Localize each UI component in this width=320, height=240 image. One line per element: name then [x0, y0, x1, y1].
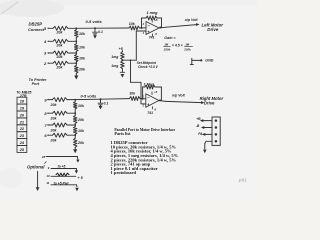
- label To Printer Port: [29, 78, 47, 86]
- svg-text:21: 21: [19, 119, 24, 124]
- svg-text:10k: 10k: [78, 104, 85, 108]
- svg-text:11: 11: [46, 181, 49, 185]
- svg-text:23: 23: [19, 133, 25, 138]
- node pin 8 label: [44, 111, 48, 116]
- node pin 3 label: [44, 51, 49, 56]
- node pin 4 label: [43, 39, 49, 44]
- arrow optional down: [36, 171, 40, 191]
- node pin 2 label: [43, 61, 49, 66]
- label 0-5 volts (mid): [81, 94, 98, 99]
- node pin 9 label: [44, 97, 48, 102]
- node pin 6 label: [44, 133, 48, 138]
- wire pin 6 to resistor: [49, 134, 53, 136]
- label 0-5 volts (top): [86, 19, 103, 24]
- label +5 supply: [119, 47, 124, 51]
- node op-amp2 inverting input: [140, 98, 146, 100]
- resistor 1meg divider upper: [111, 52, 124, 60]
- wire midpoint to rail: [122, 59, 136, 61]
- connector J2 pin +B: [196, 117, 217, 122]
- label Optional: [27, 162, 46, 170]
- svg-text:22: 22: [19, 126, 25, 131]
- svg-text:741: 741: [149, 35, 155, 39]
- svg-text:Drive: Drive: [207, 27, 219, 32]
- rail wire down left side: [130, 59, 132, 82]
- optional row pin11: [46, 181, 79, 191]
- svg-text:o/p Volt: o/p Volt: [172, 93, 186, 97]
- connector J2 pin -B: [196, 124, 217, 129]
- wire pin 9 to resistor: [49, 99, 53, 101]
- resistor 10k bus1 a: [75, 30, 86, 38]
- wire resistor to bus row 7: [67, 124, 76, 126]
- resistor 10k bus1 c: [75, 55, 86, 62]
- svg-text:20k: 20k: [78, 68, 86, 72]
- node op-amp1 inverting input: [140, 27, 147, 29]
- svg-text:0.1: 0.1: [104, 101, 109, 105]
- resistor 10k bus2 c: [73, 127, 85, 135]
- svg-text:20k: 20k: [50, 117, 58, 121]
- svg-text:20k: 20k: [56, 65, 64, 69]
- rail wire bottom to op-amp2 + input: [131, 82, 146, 104]
- svg-text:0.1: 0.1: [98, 30, 103, 34]
- ground ladder1: [74, 73, 78, 79]
- resistor 20k pin 8: [50, 111, 68, 120]
- svg-text:PA: PA: [198, 132, 203, 136]
- op-amp U2 741 triangle: [141, 90, 159, 115]
- resistor 10k bus1 b: [75, 44, 86, 52]
- svg-text:24: 24: [19, 140, 25, 145]
- paper background: [0, 0, 257, 200]
- resistor 10k op-amp2 input: [129, 92, 140, 101]
- label DB25P Connect: [28, 22, 45, 33]
- resistor 20k bus2 terminator: [73, 138, 85, 147]
- svg-text:10k: 10k: [129, 22, 136, 26]
- svg-text:20k: 20k: [50, 103, 58, 107]
- svg-text:220k: 220k: [163, 47, 171, 51]
- label Set Midpoint Check: [137, 61, 159, 69]
- resistor 1 meg op-amp1 feedback: [146, 11, 158, 20]
- ground ladder2: [73, 147, 77, 153]
- connector strip DB25 ground pins: [17, 97, 27, 152]
- svg-text:Connect: Connect: [28, 27, 45, 32]
- svg-text:Optional: Optional: [27, 165, 45, 170]
- wire bus2 top segment: [74, 100, 76, 102]
- connector J2 ground pin: [203, 140, 217, 153]
- wire bus2 seg c: [74, 123, 76, 126]
- wire bus2 seg d: [74, 134, 76, 138]
- wire resistor to bus row 6: [67, 134, 76, 136]
- resistor 20k pin 7: [50, 123, 68, 132]
- svg-text:Port: Port: [32, 82, 40, 86]
- svg-text:DB25P: DB25P: [29, 22, 43, 27]
- op-amp U1 741 triangle: [142, 18, 159, 40]
- wire bus1 seg c: [75, 51, 77, 54]
- svg-text:20: 20: [19, 112, 25, 117]
- capacitor C1 0.1: [93, 27, 103, 38]
- svg-text:20k: 20k: [50, 128, 58, 132]
- resistor 20k pin 3: [53, 51, 68, 59]
- wire op-amp1 output: [159, 23, 200, 28]
- label Left Motor Drive: [202, 22, 224, 32]
- svg-text:Gain ≈: Gain ≈: [164, 36, 175, 40]
- wire resistor to bus row 4: [68, 40, 77, 42]
- wire +5 stub: [121, 51, 123, 52]
- feedback wire op-amp1 right: [157, 18, 162, 29]
- svg-text:25: 25: [19, 147, 25, 152]
- feedback wire op-amp1 up: [142, 18, 147, 28]
- svg-text:Drive: Drive: [204, 101, 215, 106]
- svg-text:25: 25: [41, 155, 46, 159]
- feedback wire op-amp2 right: [155, 87, 161, 101]
- wire resistor to bus row 2: [68, 62, 77, 64]
- label DB25 connector strip title: [16, 90, 32, 98]
- svg-text:741: 741: [147, 111, 153, 115]
- label o/p Volt (top): [185, 18, 199, 22]
- svg-text:0-5 volts: 0-5 volts: [81, 94, 98, 99]
- svg-text:0-5 volts: 0-5 volts: [86, 19, 103, 24]
- wire resistor to bus row 3: [68, 52, 77, 54]
- parts list text block: [111, 128, 179, 175]
- ground GND reference: [190, 58, 213, 64]
- resistor 1 Meg op-amp2 feedback: [144, 82, 155, 89]
- svg-text:+B: +B: [196, 117, 201, 121]
- svg-text:10: 10: [46, 174, 50, 178]
- svg-text:1 protoboard: 1 protoboard: [111, 170, 137, 175]
- svg-text:1mg: 1mg: [111, 64, 119, 68]
- svg-text:20k: 20k: [77, 141, 85, 145]
- label Right Motor Drive: [200, 96, 224, 105]
- node pin 5 label: [44, 26, 49, 31]
- connector J2 body: [212, 117, 220, 145]
- wire resistor to bus row 5: [68, 27, 77, 29]
- svg-text:GND: GND: [205, 59, 213, 63]
- resistor 20k pin 6: [50, 133, 68, 142]
- label o/p Volt (mid): [172, 93, 186, 97]
- svg-text:1 Meg: 1 Meg: [144, 82, 155, 86]
- svg-text:+5: +5: [154, 90, 158, 94]
- wire bus1 top segment: [75, 28, 77, 29]
- resistor 1meg divider lower: [111, 61, 124, 69]
- svg-text:10k: 10k: [79, 46, 86, 50]
- resistor 20k bus2 b: [73, 116, 85, 124]
- svg-text:1M: 1M: [164, 42, 169, 46]
- svg-text:1 meg: 1 meg: [147, 11, 159, 15]
- svg-text:20k: 20k: [56, 31, 64, 35]
- optional row pin25: [41, 155, 80, 162]
- wire bus1 seg d: [75, 62, 77, 66]
- wire summing node to op-amp1: [76, 27, 129, 29]
- wire resistor to bus row 8: [67, 112, 76, 114]
- resistor 10k op-amp1 input: [129, 22, 140, 30]
- svg-text:10k: 10k: [79, 32, 86, 36]
- gain formula: [163, 36, 193, 51]
- capacitor C2 0.1: [98, 98, 108, 109]
- svg-text:20k: 20k: [56, 55, 64, 59]
- wire summing node2 to op-amp2: [75, 99, 129, 100]
- resistor 20k bus1 terminator: [75, 65, 86, 73]
- svg-text:220k: 220k: [183, 47, 191, 51]
- resistor 20k pin 2: [53, 61, 68, 69]
- optional row pin9: [48, 164, 79, 173]
- connector J2 pin PA: [198, 132, 217, 136]
- wire resistor to bus row 9: [67, 99, 76, 101]
- svg-text:= 4.5 ×: = 4.5 ×: [172, 44, 183, 48]
- wire bus2 seg b: [74, 109, 76, 116]
- wire bus1 seg b: [75, 38, 77, 44]
- wire pin 8 to resistor: [49, 112, 53, 114]
- svg-text:-5: -5: [154, 32, 157, 36]
- svg-text:20k: 20k: [77, 118, 85, 122]
- svg-text:o/p Volt: o/p Volt: [185, 18, 199, 22]
- svg-text:10k: 10k: [79, 57, 86, 61]
- svg-text:Parts list: Parts list: [114, 131, 131, 136]
- wire pin 2 to resistor: [49, 62, 53, 64]
- svg-text:20k: 20k: [50, 139, 58, 143]
- svg-text:10k: 10k: [129, 92, 136, 96]
- resistor 20k pin 4: [53, 39, 68, 47]
- resistor 20k pin 9: [50, 98, 68, 107]
- svg-text:1mg: 1mg: [111, 55, 119, 59]
- resistor 10k bus2 a: [73, 102, 85, 109]
- resistor 20k pin 5: [53, 26, 68, 34]
- ground divider: [120, 69, 124, 78]
- scan artifact diagonal: [1, 2, 18, 14]
- wire pin 5 to resistor: [49, 27, 53, 29]
- wire pin 4 to resistor: [49, 40, 53, 42]
- optional row pin10: [46, 173, 83, 180]
- svg-text:10k: 10k: [78, 129, 85, 133]
- svg-text:to +5: to +5: [58, 164, 66, 168]
- svg-text:20k: 20k: [56, 44, 64, 48]
- svg-text:-5: -5: [154, 107, 157, 111]
- node divider midpoint: [121, 59, 123, 61]
- wire op-amp2 output: [159, 101, 205, 105]
- node pin 7 label: [44, 123, 48, 128]
- svg-text:Check +2.5 V: Check +2.5 V: [138, 65, 159, 69]
- svg-text:p61: p61: [238, 178, 247, 183]
- signature p61: [238, 178, 247, 183]
- feedback wire op-amp2 up: [143, 87, 145, 99]
- svg-text:1M: 1M: [185, 42, 190, 46]
- wire pin 3 to resistor: [49, 52, 53, 54]
- rail wire to op-amp1 + input: [136, 31, 146, 60]
- wire pin 7 to resistor: [49, 124, 53, 126]
